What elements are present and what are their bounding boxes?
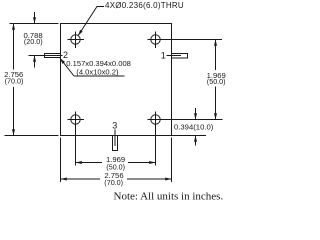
plate outline bbox=[61, 24, 172, 136]
wire: bottom dimension line 2.756 bbox=[61, 178, 101, 180]
svg-text:(50.0): (50.0) bbox=[207, 77, 226, 86]
arrowhead left dim top bbox=[12, 24, 15, 30]
arrowhead 0.788 top bbox=[33, 17, 36, 23]
wire: pin2 extension line bbox=[29, 55, 63, 57]
arrowhead 0.394 top bbox=[194, 113, 197, 119]
arrowhead pin2 leader bbox=[60, 58, 65, 64]
arrowhead right dim bottom bbox=[214, 113, 217, 119]
svg-text:3: 3 bbox=[112, 120, 117, 130]
wire: bottom-left extension line bbox=[5, 135, 59, 137]
wire: underline under (4.0x10x0.2) bbox=[74, 75, 125, 77]
hole bottom-right bbox=[148, 112, 164, 128]
svg-text:2: 2 bbox=[63, 50, 68, 60]
svg-text:(20.0): (20.0) bbox=[24, 37, 43, 46]
wire: leader for pin2 note bbox=[60, 58, 74, 76]
wire: 0.788 dim stubs bbox=[34, 12, 36, 24]
svg-text:(4.0x10x0.2): (4.0x10x0.2) bbox=[76, 68, 119, 77]
wire: plate corner extensions down bbox=[60, 138, 62, 183]
svg-text:(70.0): (70.0) bbox=[5, 77, 24, 86]
wire: top-left extension line bbox=[10, 23, 59, 25]
wire: pin3 leader dash bbox=[114, 130, 116, 147]
svg-text:Note: All units in inches.: Note: All units in inches. bbox=[114, 191, 224, 203]
arrowhead right dim top bbox=[214, 40, 217, 46]
arrowhead 0.788 bottom bbox=[33, 56, 36, 62]
svg-text:1: 1 bbox=[161, 51, 166, 61]
wire: pin1 leader dash bbox=[167, 55, 182, 57]
wire: left dimension line 2.756 bbox=[13, 24, 15, 70]
wire: leader for 4X holes note bbox=[78, 7, 104, 36]
wire: bottom-right hole extension bbox=[164, 119, 223, 121]
hole top-left bbox=[68, 32, 85, 49]
wire: bottom-right edge extension bbox=[172, 135, 207, 137]
svg-text:0.394(10.0): 0.394(10.0) bbox=[174, 123, 214, 132]
arrowhead bottom 1.969 right bbox=[149, 161, 155, 164]
arrowhead 4X leader bbox=[78, 30, 83, 36]
pin 3 tab bbox=[113, 136, 118, 151]
arrowhead bottom 2.756 left bbox=[61, 178, 67, 181]
wire: bottom dimension line 1.969 bbox=[76, 162, 103, 164]
wire: 0.394 dim stubs bbox=[195, 108, 197, 120]
arrowhead 0.394 bottom bbox=[194, 136, 197, 142]
arrowhead bottom 2.756 right bbox=[165, 178, 171, 181]
pin 1 tab bbox=[172, 54, 188, 59]
wire: right dimension line 1.969 bbox=[215, 40, 217, 71]
arrowhead bottom 1.969 left bbox=[76, 161, 82, 164]
svg-text:(70.0): (70.0) bbox=[104, 178, 123, 187]
arrowhead left dim bottom bbox=[12, 129, 15, 135]
svg-text:4XØ0.236(6.0)THRU: 4XØ0.236(6.0)THRU bbox=[105, 1, 184, 10]
hole bottom-left bbox=[68, 112, 85, 128]
wire: top-right hole extension bbox=[164, 39, 223, 41]
hole top-right bbox=[148, 32, 164, 49]
wire: hole extensions down bbox=[75, 128, 77, 166]
pin 2 tab bbox=[45, 54, 61, 58]
